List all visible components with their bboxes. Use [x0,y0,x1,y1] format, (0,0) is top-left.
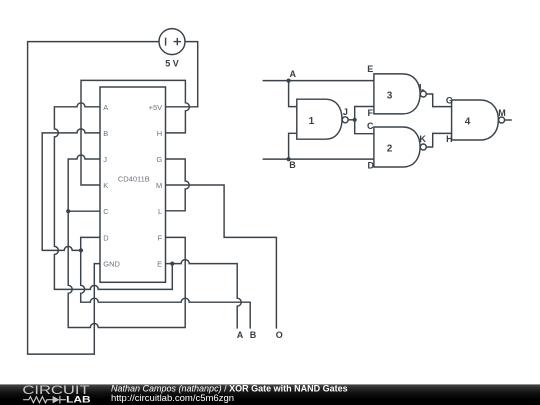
svg-text:E: E [157,260,162,269]
voltage source V1 (5 V DC) [159,29,185,55]
wire: net A, A pin down and under U1 to E-wire junction [54,103,172,290]
svg-text:D: D [103,233,109,242]
svg-text:1: 1 [309,116,315,127]
svg-text:http://circuitlab.com/c5m6zgn: http://circuitlab.com/c5m6zgn [111,393,234,404]
node name labels right schematic [289,64,506,171]
svg-text:B: B [289,160,296,170]
svg-text:O: O [276,330,283,340]
NAND gate 2 body [374,127,420,167]
svg-text:B: B [103,129,108,138]
svg-text:4: 4 [465,116,471,127]
svg-text:C: C [367,121,374,131]
svg-text:B: B [250,330,257,340]
wire: net K gate 2 output to gate 4 input H [426,133,451,147]
svg-text:F: F [158,233,163,242]
NAND gate 4 bubble [499,117,505,123]
svg-text:L: L [158,207,162,216]
footer logo resistor + diode symbol [23,396,66,404]
svg-text:M: M [156,181,162,190]
gate number labels [309,90,471,154]
svg-text:H: H [157,129,162,138]
NAND gate 1 bubble [342,117,348,123]
svg-text:2: 2 [387,143,393,154]
wire: net B, B pin down-left and across [42,129,100,251]
wire: V1 positive terminal to +5V pin of U1 [166,42,198,107]
wire: net A, E pin wire to bottom flag A [166,260,242,329]
wire: net J, C pin branch [68,210,100,212]
NAND gate 4 body [452,100,499,140]
svg-text:D: D [367,160,374,170]
svg-text:F: F [367,108,373,118]
svg-text:LAB: LAB [66,394,91,405]
svg-text:A: A [103,103,108,112]
svg-text:A: A [237,330,244,340]
svg-text:CD4011B: CD4011B [118,174,150,183]
junction dot net J at C wire [66,209,70,213]
IC U1 CD4011B body [100,87,166,282]
wire: net J to gate 2 input C [355,120,374,134]
wire: net L gate 3 output to gate 4 input G [426,94,451,107]
junction dot net B at D vertical [79,248,83,252]
wire: net M gate 4 output stub [505,119,512,121]
junction dot net J right side [353,118,357,122]
wire: net B branch to gate 1 input [289,133,297,159]
NAND gate 1 body [297,99,342,139]
wire: net J, J pin down under U1 and up to F pin [68,155,185,328]
wire: V1 negative terminal to GND pin of U1 [28,42,159,355]
wire: net J gate 1 output [348,119,355,121]
wire: net A row to gate 3 input E [263,80,374,82]
svg-text:H: H [446,134,453,144]
wire: net B, D pin down to bottom flag B [81,237,251,328]
wire: net K, H pin to K pin over top of U1 [81,80,189,185]
svg-text:G: G [156,155,162,164]
NAND gate 3 body [374,74,420,114]
wire: net O, M pin to bottom flag O [166,185,277,329]
svg-text:J: J [343,107,348,117]
svg-text:C: C [103,207,109,216]
junction dot net A right side [287,79,291,83]
svg-text:+5V: +5V [149,103,163,112]
NAND gate 3 bubble [420,91,426,97]
junction dot net A at E wire [170,262,174,266]
svg-text:L: L [419,82,425,92]
IC U1 pin labels [103,103,162,269]
svg-text:5 V: 5 V [165,58,179,68]
wire: net L, G pin to L pin [166,159,190,211]
wire: net J to gate 3 input F [355,107,374,120]
svg-text:GND: GND [103,260,120,269]
svg-text:G: G [446,95,453,105]
svg-text:J: J [103,155,107,164]
svg-text:M: M [498,108,506,118]
wire: net B row to gate 2 input D [263,158,374,160]
svg-text:K: K [419,134,426,144]
svg-text:3: 3 [387,90,393,101]
wire: net A branch to gate 1 input [289,81,297,107]
svg-text:E: E [367,64,373,74]
svg-text:A: A [290,69,297,79]
junction dot net B right side [287,157,291,161]
footer black bar [0,384,540,405]
svg-text:Nathan Campos (nathanpc) / XOR: Nathan Campos (nathanpc) / XOR Gate with… [111,383,348,393]
NAND gate 2 bubble [420,144,426,150]
svg-text:K: K [103,181,108,190]
